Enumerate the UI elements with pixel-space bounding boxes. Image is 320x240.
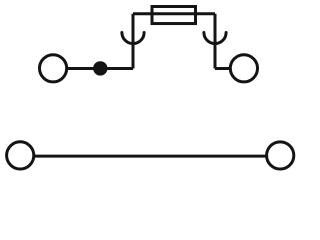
clamp contact left [122,33,144,44]
wire: left vertical leg (through clamp) [132,14,135,69]
terminal circle bottom-left [7,142,34,169]
wire: right stub to top-right terminal [215,67,230,70]
node junction dot [93,61,107,75]
terminal circle bottom-right [267,142,294,169]
terminal circle top-left [40,55,67,82]
wire: top-left terminal to left clamp leg [66,67,133,70]
fuse F1 body [152,7,196,24]
clamp contact right [204,33,226,44]
terminal circle top-right [230,55,257,82]
wire: fuse bridge top [133,12,215,15]
wire: right vertical leg (through clamp) [214,14,217,69]
wire: bottom feed-through [34,155,267,158]
